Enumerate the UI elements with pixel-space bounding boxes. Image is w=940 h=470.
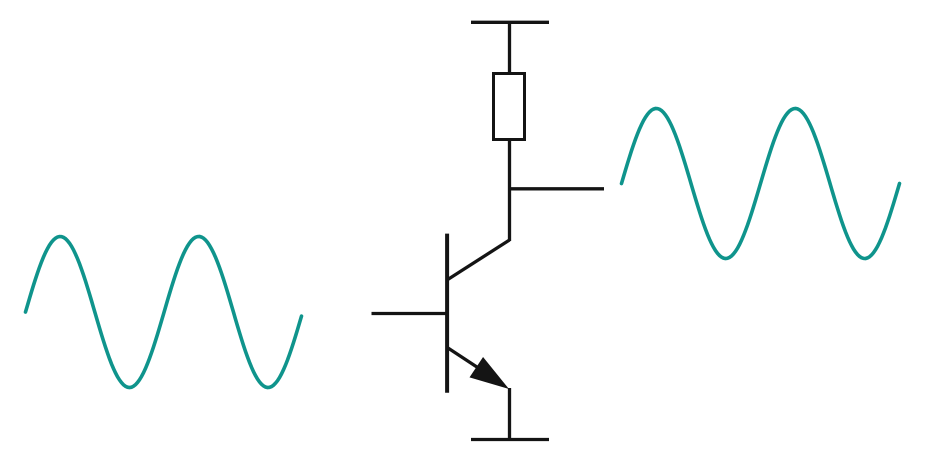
resistor R1	[494, 74, 525, 140]
wire resistor to collector	[508, 139, 511, 241]
emitter arrowhead	[470, 358, 507, 388]
emitter wire to ground	[508, 388, 511, 440]
input sine wave	[26, 237, 302, 388]
Vcc supply rail	[471, 21, 549, 24]
ground	[471, 438, 549, 441]
base input wire	[372, 312, 448, 315]
transistor Q1 emitter lead	[448, 348, 490, 376]
transistor Q1 base bar	[445, 234, 449, 393]
wire supply to resistor	[508, 22, 511, 73]
transistor Q1 collector lead	[447, 240, 510, 280]
output sine wave	[622, 109, 900, 259]
output wire	[510, 187, 605, 190]
